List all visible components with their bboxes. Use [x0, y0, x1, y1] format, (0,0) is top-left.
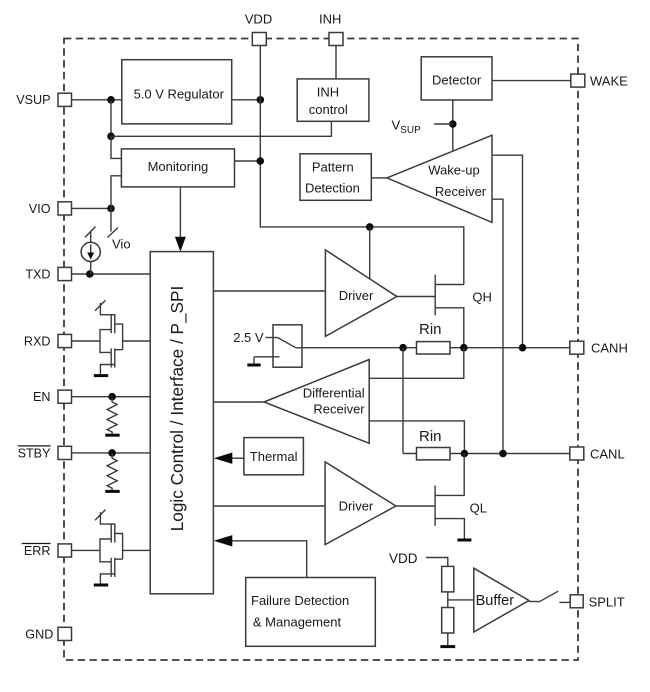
svg-text:Buffer: Buffer [476, 593, 515, 609]
svg-text:VIO: VIO [29, 202, 51, 216]
svg-text:INH: INH [319, 12, 341, 27]
pin GND [58, 627, 72, 640]
svg-text:control: control [309, 102, 348, 117]
block Thermal [244, 438, 304, 475]
label VSUP node [392, 118, 422, 136]
resistor divider upper [442, 566, 454, 592]
wire VDD to divider [426, 558, 448, 567]
node CANL wake-up tap [499, 450, 507, 458]
svg-text:Driver: Driver [339, 288, 374, 303]
label Rin CANL [419, 428, 442, 445]
svg-text:RXD: RXD [24, 334, 51, 348]
op-amp driver bottom [325, 462, 396, 545]
svg-text:Thermal: Thermal [250, 449, 298, 464]
svg-text:VSUP: VSUP [16, 93, 50, 107]
pin ERR [58, 544, 72, 557]
IC boundary dashed frame [64, 39, 578, 661]
pin STBY [58, 446, 72, 459]
label CANH [591, 341, 628, 356]
switch 2.5 V bias source [247, 325, 302, 367]
wire VIO junction up to Monitoring input 2 [111, 176, 121, 209]
node STBY junction [108, 449, 116, 457]
svg-text:& Management: & Management [253, 615, 342, 630]
resistor Rin (CANH) [417, 342, 451, 354]
transistor QL [396, 454, 472, 541]
svg-text:Receiver: Receiver [435, 184, 487, 199]
wire VSUP junction down to supply rail [110, 100, 112, 137]
svg-text:Driver: Driver [339, 498, 374, 513]
pin SPLIT [570, 595, 583, 608]
wire VSUP rail to INH control bottom [111, 121, 331, 136]
node regulator output junction [257, 96, 265, 104]
svg-text:CANL: CANL [590, 446, 625, 461]
wire TXD pin to logic [72, 273, 151, 275]
node VDD rail junction to driver [366, 223, 374, 231]
svg-text:CANH: CANH [591, 341, 628, 356]
svg-text:Receiver: Receiver [313, 401, 365, 416]
wire Pattern Detection to wake-up receiver [371, 177, 387, 179]
label STBY with overline [18, 446, 51, 460]
label VDD [245, 12, 272, 27]
wire Detector to WAKE pin [492, 80, 571, 82]
wire Detector down to wake-up receiver [452, 100, 454, 151]
resistor Rin (CANL) [417, 448, 451, 460]
svg-text:SPLIT: SPLIT [589, 594, 625, 609]
svg-text:Rin: Rin [419, 321, 442, 338]
label QH [472, 290, 492, 305]
node EN junction [108, 393, 116, 401]
label TXD [25, 267, 50, 281]
svg-text:2.5 V: 2.5 V [233, 330, 264, 345]
block Monitoring [121, 149, 234, 187]
transistor pair RXD output stage [72, 300, 151, 375]
svg-text:Detector: Detector [432, 72, 482, 87]
svg-text:Failure Detection: Failure Detection [251, 593, 349, 608]
wire VSUP pin to regulator [72, 99, 122, 101]
svg-text:Rin: Rin [419, 428, 442, 445]
node Monitoring output junction [257, 157, 265, 165]
wire differential receiver input from CANL [369, 421, 464, 454]
label VIO [29, 202, 51, 216]
wire VDD pin down and across to QH drain [260, 45, 464, 284]
label QL [470, 500, 487, 515]
svg-text:EN: EN [33, 390, 51, 404]
wire Thermal to logic arrow [214, 453, 244, 464]
op-amp driver top [325, 250, 396, 337]
svg-text:STBY: STBY [18, 446, 51, 460]
pin CANL [570, 447, 584, 460]
pin TXD [58, 267, 72, 280]
node CANL junction [461, 450, 469, 458]
label ERR with overline [22, 544, 51, 558]
svg-text:WAKE: WAKE [590, 73, 628, 88]
svg-text:INH: INH [317, 84, 339, 99]
svg-text:5.0 V Regulator: 5.0 V Regulator [134, 87, 225, 102]
label Vio [112, 237, 131, 252]
wire wake-up receiver input from CANH [492, 155, 523, 348]
label WAKE [590, 73, 628, 88]
block 5.0 V Regulator [122, 60, 232, 124]
pin INH [329, 33, 343, 46]
pin WAKE [571, 74, 585, 87]
wire differential receiver input from CANH [369, 348, 464, 379]
svg-text:Wake-up: Wake-up [428, 163, 480, 178]
svg-text:VDD: VDD [389, 551, 418, 566]
node VSUP junction [107, 96, 115, 104]
svg-text:Logic Control / Interface / P_: Logic Control / Interface / P_SPI [167, 286, 187, 532]
resistor EN pull-down [105, 397, 119, 436]
node VSUP tap [434, 120, 457, 128]
svg-text:VDD: VDD [245, 12, 272, 27]
wire VIO pin to junction [72, 207, 112, 209]
node CANH wake-up tap [519, 344, 527, 352]
pin RXD [58, 334, 72, 347]
node supply rail junction [107, 133, 115, 141]
transistor pair ERR output stage [72, 510, 151, 585]
wire VIO junction stub down to Vio rail [108, 208, 119, 237]
op-amp differential receiver [264, 360, 369, 444]
current source I1 (Vio pull-up at TXD) [81, 227, 100, 274]
wire EN pin to logic [72, 396, 151, 398]
svg-text:GND: GND [25, 627, 53, 641]
wire Failure block to logic arrow [214, 535, 307, 577]
wire regulator output to VDD line [232, 99, 261, 101]
label VSUP [16, 93, 50, 107]
wire differential receiver output to logic [213, 401, 264, 403]
wire wake-up receiver input from CANL [492, 199, 503, 453]
svg-text:Pattern: Pattern [312, 160, 354, 175]
wire STBY pin to logic [72, 452, 151, 454]
wire VSUP rail branch to Monitoring input 1 [111, 136, 121, 158]
wire INH pin to INH control [335, 45, 337, 79]
label Rin CANH [419, 321, 442, 338]
pin VIO [58, 202, 72, 215]
block Failure Detection & Management [246, 578, 376, 647]
label 2.5 V [233, 330, 264, 345]
op-amp wake-up receiver [387, 135, 492, 222]
pin EN [58, 390, 72, 403]
label VDD (split divider) [389, 551, 418, 566]
wire Monitoring to logic arrow [175, 187, 186, 252]
label GND [25, 627, 53, 641]
svg-text:TXD: TXD [25, 267, 50, 281]
wire divider middle node [448, 592, 474, 608]
svg-text:Vio: Vio [112, 237, 131, 252]
node VIO junction [107, 205, 115, 213]
label RXD [24, 334, 51, 348]
node TXD junction [86, 270, 94, 278]
ground divider [440, 633, 455, 647]
wire Monitoring output to VDD line [235, 160, 261, 162]
op-amp buffer [474, 568, 529, 632]
svg-text:QL: QL [470, 500, 487, 515]
wire rail tap down to CANL rail [402, 348, 404, 454]
wire VDD rail to top driver [369, 227, 371, 279]
wire logic to bottom driver [213, 505, 325, 507]
label EN [33, 390, 51, 404]
svg-text:Monitoring: Monitoring [148, 159, 209, 174]
node CANH junction [460, 344, 468, 352]
pin VDD [252, 33, 266, 46]
svg-text:Detection: Detection [305, 180, 360, 195]
wire CANH rail [302, 347, 569, 349]
block INH control [297, 79, 369, 121]
wire logic to top driver [213, 290, 325, 292]
pin VSUP [58, 93, 72, 106]
resistor STBY pull-down [105, 453, 119, 492]
block Pattern Detection [300, 154, 371, 201]
block Logic Control / Interface / P_SPI [150, 252, 213, 594]
svg-text:Differential: Differential [303, 385, 365, 400]
label SPLIT [589, 594, 625, 609]
switch SPLIT output [529, 591, 570, 602]
svg-text:ERR: ERR [24, 544, 51, 558]
pin CANH [570, 341, 584, 354]
resistor divider lower [442, 608, 454, 634]
label INH [319, 12, 341, 27]
wire CANL rail [403, 453, 570, 455]
transistor QH [397, 275, 464, 348]
label CANL [590, 446, 625, 461]
svg-text:QH: QH [472, 290, 492, 305]
block Detector [421, 57, 492, 100]
node rail tap junction [399, 344, 407, 352]
